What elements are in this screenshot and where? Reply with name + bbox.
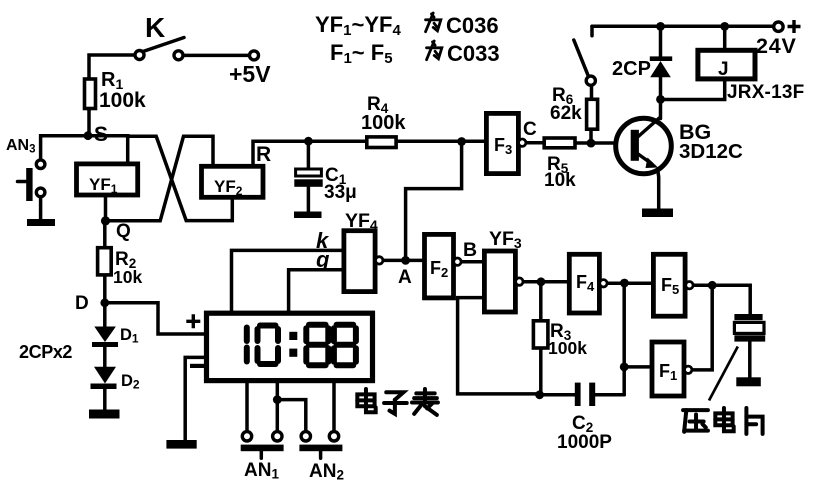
svg-text:F1~ F5: F1~ F5 [330, 40, 393, 67]
svg-text:C: C [523, 119, 537, 140]
svg-text:3D12C: 3D12C [679, 140, 743, 163]
svg-text:JRX-13F: JRX-13F [727, 82, 804, 103]
svg-text:+5V: +5V [229, 61, 271, 87]
svg-text:10k: 10k [113, 267, 142, 287]
svg-text:100k: 100k [361, 112, 406, 134]
svg-text:J: J [718, 59, 729, 80]
svg-text:S: S [94, 123, 108, 146]
svg-text:62k: 62k [550, 103, 582, 124]
svg-text:100k: 100k [548, 338, 587, 358]
svg-text:1000P: 1000P [557, 432, 612, 453]
svg-text:Q: Q [116, 221, 131, 242]
svg-text:C033: C033 [447, 41, 500, 66]
svg-text:2CP: 2CP [612, 58, 651, 80]
svg-text:2CPx2: 2CPx2 [19, 342, 72, 362]
svg-text:YF1~YF4: YF1~YF4 [315, 12, 401, 39]
svg-text:g: g [315, 247, 330, 272]
svg-text:R: R [256, 143, 271, 166]
svg-text:100k: 100k [99, 89, 146, 112]
svg-text:C036: C036 [446, 13, 499, 38]
svg-text:D: D [75, 293, 89, 314]
svg-text:K: K [145, 12, 165, 43]
svg-text:A: A [398, 267, 412, 288]
svg-text:24V: 24V [756, 34, 797, 58]
svg-text:B: B [463, 239, 477, 261]
svg-text:33μ: 33μ [324, 182, 357, 203]
svg-text:10k: 10k [544, 170, 576, 191]
